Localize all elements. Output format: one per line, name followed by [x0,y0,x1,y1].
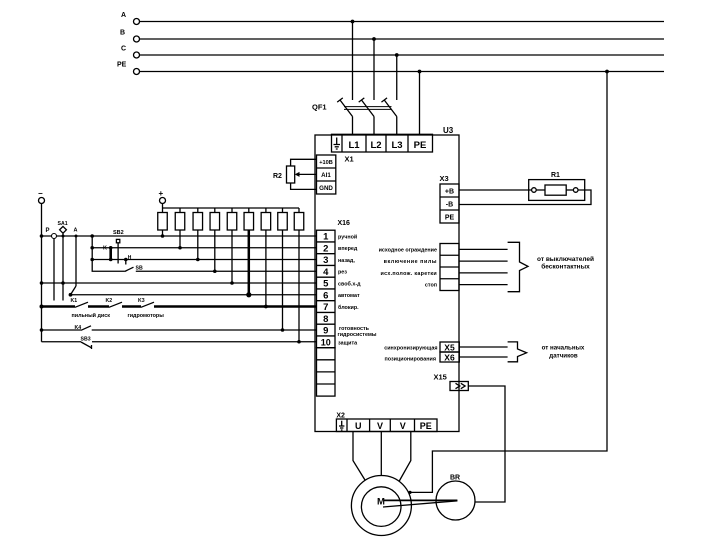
svg-text:X3: X3 [440,174,449,183]
svg-text:L1: L1 [348,140,360,151]
encoder BR [436,475,475,521]
connector X6 [440,352,459,362]
wire row 10 to X16 pin 10 (button SB3) [42,336,317,349]
svg-text:U: U [355,421,362,431]
svg-text:PE: PE [420,421,432,431]
motor shaft [383,500,457,507]
svg-text:SA1: SA1 [58,221,68,227]
svg-text:от выключателей: от выключателей [537,255,594,263]
svg-text:от начальных: от начальных [542,345,585,352]
phase terminal PE [117,62,140,75]
svg-text:1: 1 [323,232,329,243]
svg-text:AI1: AI1 [321,172,331,179]
wire sensor 3 [459,272,508,274]
contact P [46,228,57,301]
svg-text:стоп: стоп [425,282,437,288]
button SB2 [113,230,124,264]
svg-text:датчиков: датчиков [549,353,578,360]
brace sensors [508,242,528,291]
contact K1 [75,302,88,307]
wire X5 [459,346,507,348]
wire X3 +B to R1 [459,189,532,191]
braking resistor R1 [529,172,585,200]
wire row 7 to X16 pin 7 [42,298,317,307]
connector X5 [440,342,459,352]
svg-text:+10B: +10B [319,160,333,166]
svg-text:H: H [128,255,132,261]
svg-text:V: V [400,421,406,431]
pin label: готовность гидросистемы [338,326,377,338]
svg-text:пильный диск: пильный диск [72,312,111,319]
connector X3 [440,174,460,223]
resistor row 2 [175,208,185,250]
svg-text:GND: GND [319,185,333,192]
motor M [351,476,411,536]
svg-text:назад,: назад, [338,258,355,264]
wire PE bus to motor frame [408,72,607,495]
svg-text:QF1: QF1 [312,103,327,112]
svg-text:синхронизирующая: синхронизирующая [384,346,437,352]
svg-text:вперед: вперед [338,246,358,252]
brace X5 X6 [508,342,527,362]
switch SA1 [58,221,68,301]
phase terminal C [121,46,140,59]
svg-text:X2: X2 [336,412,345,419]
svg-text:C: C [121,46,126,53]
wire bus PE to PE input cell [419,72,421,135]
svg-text:X16: X16 [338,220,351,227]
svg-text:L3: L3 [391,140,402,151]
svg-text:3: 3 [323,255,328,266]
contact K3 [141,302,154,307]
svg-text:4: 4 [323,267,329,278]
svg-text:A: A [74,228,78,234]
svg-text:защита: защита [338,340,358,346]
svg-text:X6: X6 [444,352,455,362]
frequency drive U3 enclosure [315,126,459,432]
svg-text:включение пилы: включение пилы [384,259,437,265]
wire row 6 to X16 pin 6 [69,293,317,297]
svg-text:X5: X5 [444,342,455,352]
connector X15 [434,373,469,391]
svg-text:L2: L2 [370,140,381,151]
wire row 1 to X16 pin 1 [42,234,317,238]
svg-text:+: + [159,189,164,198]
resistor row 10 [294,208,304,344]
potentiometer R2 [273,159,317,189]
svg-text:SB2: SB2 [113,230,124,236]
wire row 3 to X16 pin 3 [90,258,316,262]
svg-text:K3: K3 [138,298,145,304]
contact K [103,246,111,261]
resistor row 4 [210,208,220,273]
input terminal strip L1 L2 L3 PE [332,134,433,152]
svg-text:6: 6 [323,290,328,301]
minus supply terminal [38,189,45,204]
svg-text:автомат: автомат [338,293,360,299]
wire row 2 to X16 pin 2 [90,246,316,250]
svg-text:бесконтактных: бесконтактных [541,263,590,271]
wire X15 to encoder BR [468,386,505,502]
wire row 4 to X16 pin 4 (with button SB) [92,236,316,272]
svg-text:исх.полож. каретки: исх.полож. каретки [380,271,437,277]
contact K2 [109,302,122,307]
svg-text:K1: K1 [71,298,78,304]
svg-text:A: A [121,12,126,19]
bus wire C [140,53,665,57]
wire minus rail [40,204,44,342]
svg-text:-B: -B [446,201,453,208]
wire sensor 4 [459,284,508,286]
ground symbol in input strip [334,138,341,150]
svg-text:U3: U3 [443,126,454,135]
resistor row 9 [278,208,288,332]
resistor row 7 [261,208,271,308]
svg-text:K4: K4 [75,325,82,331]
circuit breaker QF1 [312,98,397,134]
sensor input cells on right edge [440,244,459,291]
svg-text:K2: K2 [106,298,113,304]
svg-text:исходное ограждение: исходное ограждение [379,247,437,253]
spare cells below X16 [317,348,336,396]
svg-text:R1: R1 [551,172,560,179]
plus supply terminal [159,189,166,204]
wire plus rail [163,204,300,209]
bus wire PE [140,70,665,74]
wire row 5 to X16 pin 5 [42,281,317,285]
svg-text:блокир.: блокир. [338,304,359,311]
wire V to motor [380,432,382,476]
svg-text:гидромоторы: гидромоторы [128,313,165,319]
label от выключателей бесконтактных [537,255,594,270]
svg-text:BR: BR [450,475,460,482]
wire sensor 2 [459,260,508,262]
svg-text:PE: PE [414,140,427,151]
svg-text:X1: X1 [345,155,354,164]
label от начальных датчиков [542,345,585,360]
svg-text:V: V [377,421,383,431]
wire U to motor [353,432,365,481]
svg-text:9: 9 [323,326,328,337]
svg-text:P: P [46,228,50,234]
svg-text:своб.х-д: своб.х-д [338,281,361,288]
svg-text:5: 5 [323,279,329,290]
connector X16 [317,220,351,348]
svg-text:−: − [38,189,43,198]
wire bus B to QF1 pole 2 [373,39,375,100]
svg-text:B: B [120,30,125,37]
svg-text:ручной: ручной [338,234,357,241]
phase terminal B [120,30,140,43]
bus wire B [140,37,665,41]
svg-text:SB3: SB3 [81,336,91,342]
svg-text:7: 7 [323,302,328,313]
svg-text:PE: PE [117,62,127,69]
resistor row 3 [193,208,203,261]
svg-text:R2: R2 [273,173,282,180]
wire sensor 1 [459,248,508,250]
svg-text:позиционирования: позиционирования [384,356,436,362]
connector X1 [317,155,354,195]
svg-text:+B: +B [445,188,454,195]
phase terminal A [121,12,140,25]
ground symbol in X2 strip [339,421,344,430]
wire bus A to QF1 pole 1 [352,22,354,101]
svg-text:2: 2 [323,243,328,254]
svg-text:K: K [103,246,107,252]
svg-text:8: 8 [323,314,328,325]
svg-text:PE: PE [445,214,455,221]
wire bus C to QF1 pole 3 [396,55,398,100]
bus wire A [140,20,665,24]
wire W to motor [399,432,411,482]
svg-text:рез: рез [338,270,347,276]
svg-text:готовность: готовность [339,326,370,332]
svg-text:10: 10 [321,337,331,347]
svg-text:X15: X15 [434,373,447,382]
svg-text:M: M [377,497,385,508]
wire row 9 to X16 pin 9 (contact K4) [42,325,317,331]
output terminal strip X2 [336,412,437,431]
resistor row 5 [227,208,237,285]
resistor row 6 [244,208,254,297]
svg-text:гидросистемы: гидросистемы [338,332,377,338]
wire X6 [459,356,507,358]
svg-text:SB: SB [136,266,143,272]
resistor row 1 [158,208,168,238]
contact of A feeding row 6 [71,228,78,295]
wire X3 -B to R1 [459,190,591,205]
